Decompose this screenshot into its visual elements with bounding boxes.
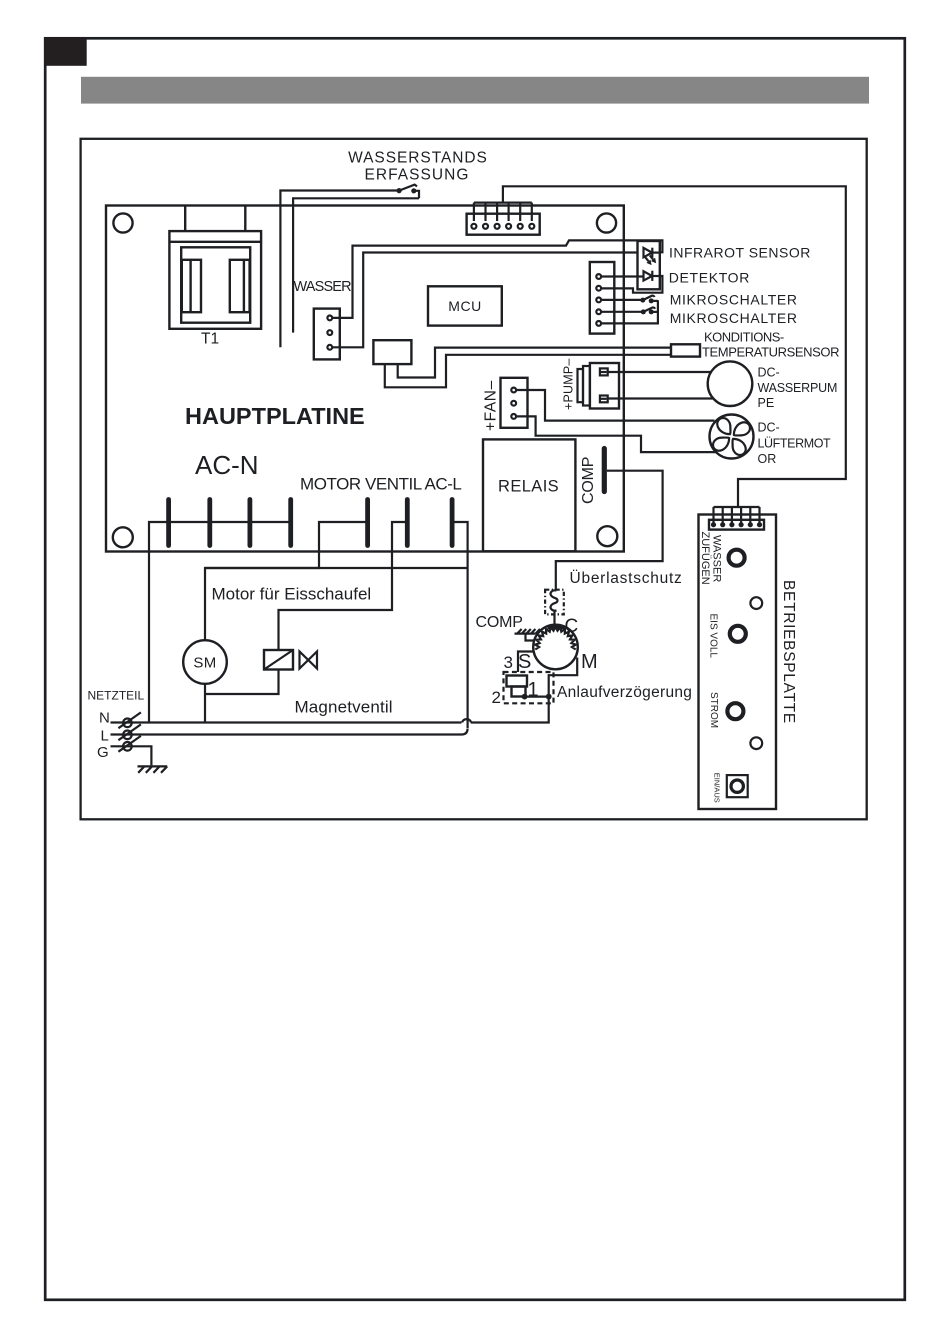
wire connector to operation panel <box>503 186 846 507</box>
svg-text:Motor für Eisschaufel: Motor für Eisschaufel <box>212 585 372 604</box>
svg-text:LÜFTERMOT: LÜFTERMOT <box>758 437 832 451</box>
wire AC-N rail to N line <box>149 522 291 723</box>
svg-text:Überlastschutz: Überlastschutz <box>570 569 683 587</box>
wire blade7 AC-L to L line <box>452 522 468 728</box>
wire infrared wrap to connector pin2 <box>601 276 662 293</box>
relay RELAIS <box>483 439 575 551</box>
connector FAN 3-pin <box>501 378 528 428</box>
MCU U1 <box>428 286 502 325</box>
wire switch lower contact to left drop <box>293 198 419 332</box>
wire relay pin1 to junction <box>525 695 549 697</box>
wire sensor connector to temperature sensor lead B <box>385 355 671 388</box>
wire solenoid valve bottom to N junction <box>205 670 279 695</box>
svg-text:WASSER: WASSER <box>711 535 723 582</box>
svg-text:BETRIEBSPLATTE: BETRIEBSPLATTE <box>780 580 797 724</box>
plug N <box>118 712 140 728</box>
connector temperature sensor 2-pin <box>373 340 411 364</box>
DC fan motor circle <box>710 415 754 459</box>
svg-text:AC-N: AC-N <box>195 450 259 480</box>
svg-text:EIS VOLL: EIS VOLL <box>708 614 719 659</box>
wire connector pin1 to detector anode <box>601 275 644 277</box>
svg-text:WASSERSTANDS: WASSERSTANDS <box>348 150 488 167</box>
plug G <box>118 736 140 752</box>
plug L <box>118 724 140 740</box>
wire microswitch commons to pin5 <box>601 300 658 323</box>
indicator small 1 <box>750 597 762 609</box>
indicator STROM <box>727 703 743 719</box>
svg-text:C: C <box>565 616 579 637</box>
svg-text:STROM: STROM <box>708 692 719 728</box>
svg-text:PE: PE <box>758 396 775 410</box>
connector 5-pin sensors <box>590 262 615 334</box>
svg-text:WASSERPUM: WASSERPUM <box>758 381 838 395</box>
compressor motor COMP <box>533 625 578 670</box>
infrared sensor assembly INFRAROT SENSOR / DETEKTOR <box>638 241 660 289</box>
mounting hole bottom-right <box>597 526 617 546</box>
svg-text:SM: SM <box>193 655 216 672</box>
connector 6-pin water level sensor <box>467 203 540 235</box>
svg-text:OR: OR <box>758 452 777 466</box>
indicator EIS VOLL <box>730 626 746 642</box>
svg-text:INFRAROT SENSOR: INFRAROT SENSOR <box>669 245 811 261</box>
wire blade6 VENTIL to solenoid valve <box>279 522 408 650</box>
svg-text:+FAN–: +FAN– <box>483 380 500 431</box>
indicator WASSER ZUFUEGEN <box>729 550 745 566</box>
svg-text:N: N <box>99 710 110 727</box>
svg-text:KONDITIONS-: KONDITIONS- <box>704 330 784 345</box>
wire junction AC-L tap <box>205 567 468 569</box>
wire sensor connector to temperature sensor lead A <box>398 348 671 378</box>
temperature sensor body <box>671 344 700 356</box>
svg-text:ZUFÜGEN: ZUFÜGEN <box>699 532 711 585</box>
wire WASSER pin1 to infrared sensor cathode <box>332 240 662 318</box>
microswitch 2 <box>601 307 658 314</box>
transformer T1 <box>169 206 261 348</box>
wire pump pin2 to water pump <box>608 397 713 399</box>
wire blade5 MOTOR to SM motor <box>205 522 368 640</box>
svg-text:3: 3 <box>504 653 513 672</box>
svg-text:MCU: MCU <box>448 298 481 314</box>
svg-text:M: M <box>581 651 598 673</box>
svg-text:L: L <box>101 728 109 745</box>
mounting hole top-right <box>597 213 616 232</box>
wire COMP terminal to overload protector <box>556 471 663 590</box>
button EIN/AUS <box>713 773 748 803</box>
svg-text:Magnetventil: Magnetventil <box>295 698 393 717</box>
svg-text:WASSER: WASSER <box>294 279 352 295</box>
indicator small 2 <box>750 737 762 749</box>
wire WASSER pin3 to infrared LED anode <box>332 253 638 348</box>
svg-text:COMP: COMP <box>580 457 597 504</box>
svg-text:1: 1 <box>528 679 539 701</box>
microswitch 1 <box>601 296 658 304</box>
start relay Anlaufverzoegerung <box>504 672 554 703</box>
svg-text:+PUMP–: +PUMP– <box>562 358 576 410</box>
svg-text:HAUPTPLATINE: HAUPTPLATINE <box>185 403 365 429</box>
junction dot relay pin1 <box>522 694 528 700</box>
svg-text:S: S <box>518 651 531 673</box>
svg-text:NETZTEIL: NETZTEIL <box>88 689 145 703</box>
junction dot M-N node <box>546 694 552 700</box>
svg-text:G: G <box>97 744 109 761</box>
svg-text:DC-: DC- <box>758 420 780 434</box>
wire fan pin3 to fan motor <box>516 416 717 452</box>
mounting hole top-left <box>113 213 132 232</box>
svg-text:DETEKTOR: DETEKTOR <box>669 270 750 286</box>
wire fan pin1 to fan motor <box>516 390 715 421</box>
wire pump pin1 to water pump <box>608 371 712 373</box>
panel connector 6-pin <box>709 507 764 530</box>
connector PUMP 2-pin <box>578 363 620 409</box>
wire SM bottom to N line <box>204 684 206 723</box>
COMP output terminal bar <box>602 449 607 492</box>
connector WASSER 3-pin <box>314 309 340 360</box>
water level switch contacts <box>397 185 420 199</box>
wire switch upper contact to left drop <box>280 191 398 348</box>
wire N line <box>111 721 462 723</box>
solenoid valve Magnetventil <box>264 650 317 670</box>
motor SM Motor fuer Eisschaufel <box>183 640 227 684</box>
svg-text:ERFASSUNG: ERFASSUNG <box>364 167 469 184</box>
svg-text:EIN/AUS: EIN/AUS <box>713 773 722 803</box>
svg-text:Anlaufverzögerung: Anlaufverzögerung <box>557 684 692 701</box>
svg-text:RELAIS: RELAIS <box>498 478 559 496</box>
DC water pump motor circle <box>708 361 753 406</box>
wire L line <box>111 729 468 735</box>
svg-text:MOTOR VENTIL AC-L: MOTOR VENTIL AC-L <box>300 475 461 494</box>
chassis ground at compressor <box>515 629 541 641</box>
wire S terminal to start relay <box>518 652 534 673</box>
earth ground symbol <box>138 766 168 772</box>
svg-text:T1: T1 <box>201 331 219 348</box>
svg-text:COMP: COMP <box>476 614 523 631</box>
svg-text:DC-: DC- <box>758 366 780 380</box>
svg-text:MIKROSCHALTER: MIKROSCHALTER <box>670 292 798 308</box>
wire G line <box>111 746 152 765</box>
blade terminals AC-N and MOTOR VENTIL AC-L <box>169 500 453 546</box>
overload protector Ueberlastschutz <box>545 590 564 626</box>
mounting hole bottom-left <box>113 527 133 547</box>
svg-text:TEMPERATURSENSOR: TEMPERATURSENSOR <box>702 345 839 360</box>
operation panel BETRIEBSPLATTE <box>699 515 777 810</box>
main board outline HAUPTPLATINE PCB <box>106 206 624 552</box>
svg-text:MIKROSCHALTER: MIKROSCHALTER <box>670 310 798 326</box>
wire M terminal to junction <box>549 658 578 697</box>
svg-text:2: 2 <box>492 688 501 707</box>
